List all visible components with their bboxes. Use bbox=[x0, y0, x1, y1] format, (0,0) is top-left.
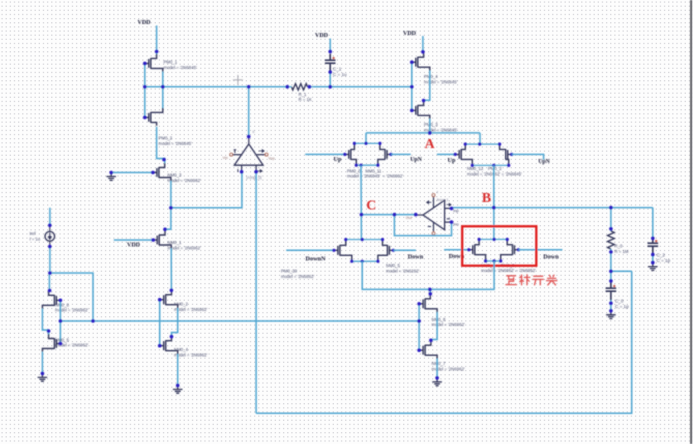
resistor R_0 bbox=[608, 231, 615, 249]
node A bbox=[425, 136, 435, 151]
switch pair Down-left bottom rail bbox=[352, 260, 378, 262]
wire chain top link bbox=[429, 289, 431, 294]
capacitor C_1 bbox=[325, 54, 347, 77]
label R_0 bbox=[615, 244, 629, 254]
svg-text:model = '2N6962': model = '2N6962' bbox=[168, 178, 201, 183]
wire DownN gate lead bbox=[286, 249, 334, 251]
switch pair Down-left right transistor bbox=[378, 240, 394, 262]
current source Iref bbox=[45, 225, 55, 246]
svg-text:|Amp_0|: |Amp_0| bbox=[246, 175, 261, 180]
svg-text:VDD: VDD bbox=[138, 20, 152, 26]
op-amp U2 bbox=[406, 190, 459, 235]
label NM0_5b bbox=[55, 337, 88, 347]
wire node B column bbox=[493, 165, 495, 239]
wire R1 left pin bbox=[287, 86, 292, 88]
capacitor C_2 bbox=[648, 237, 671, 263]
wire PM0_2 to NM0_3 bbox=[157, 127, 165, 163]
svg-text:A: A bbox=[425, 136, 435, 151]
switch pair Up-right rail junctions bbox=[454, 143, 514, 167]
svg-text:VDD: VDD bbox=[315, 33, 329, 39]
wire NM0_2 NM0_4 gate tie bbox=[159, 300, 161, 346]
transistor NM0_7 bbox=[419, 341, 437, 359]
wire bottom feedback rail bbox=[256, 271, 632, 413]
svg-text:C_1: C_1 bbox=[333, 66, 342, 71]
wire UpN gate lead bbox=[391, 153, 411, 155]
svg-text:C_2: C_2 bbox=[657, 253, 666, 258]
transistor PM0_1 bbox=[145, 54, 163, 72]
power label VDD top-left bbox=[138, 20, 152, 26]
wire Down3 gate lead bbox=[519, 249, 563, 251]
switch pair Up-left labels bbox=[347, 168, 403, 178]
svg-text:NM0_6: NM0_6 bbox=[55, 302, 69, 307]
wire R1 right pin bbox=[308, 86, 314, 88]
svg-text:NM0_3: NM0_3 bbox=[168, 173, 182, 178]
power label VDD mid-left bbox=[127, 243, 141, 249]
svg-text:model = '2N6845' = '2N6962': model = '2N6845' = '2N6962' bbox=[347, 174, 403, 179]
wire Down2 gate lead bbox=[444, 249, 469, 251]
transistor NM0_8 bbox=[419, 294, 437, 312]
junction dots group 3 bbox=[41, 224, 180, 388]
net label Down 3 bbox=[543, 253, 559, 260]
switch pair Down-right left transistor bbox=[469, 239, 486, 261]
wire NM0_1 source down bbox=[170, 248, 172, 290]
wire VDD to C_1 bbox=[329, 39, 331, 53]
label NM0_1 bbox=[168, 240, 201, 250]
wire PM0_4 PM0_3 gate tie bbox=[411, 62, 413, 110]
wire bias line right segment bbox=[313, 86, 412, 88]
switch pair Down-left left transistor bbox=[334, 240, 352, 262]
svg-text:NM0_4: NM0_4 bbox=[174, 347, 188, 352]
wire down-jog to NM0_1 drain bbox=[165, 208, 171, 231]
svg-text:Up: Up bbox=[334, 156, 342, 163]
net label UpN bbox=[410, 157, 422, 163]
transistor PM0_4 bbox=[412, 53, 430, 71]
wire NM0_6 to NM0_5b bbox=[42, 309, 48, 335]
wire NM0_3 source down bbox=[170, 181, 172, 208]
svg-text:PM0_2: PM0_2 bbox=[159, 136, 173, 141]
svg-text:NM0_12 PM0_2: NM0_12 PM0_2 bbox=[467, 166, 502, 171]
net label UpN right bbox=[538, 159, 550, 165]
wire PM0_1 gate tie bbox=[144, 63, 146, 117]
net label Down 2 bbox=[449, 253, 465, 260]
wire NM0_7 to ground bbox=[436, 359, 438, 378]
wire VDD to PM0_1 bbox=[156, 26, 158, 55]
ground mid column bbox=[173, 385, 183, 393]
label PM0_30 bbox=[281, 269, 314, 279]
switch pair Down-right rail junctions bbox=[467, 238, 520, 263]
svg-text:Down: Down bbox=[408, 253, 424, 260]
svg-text:model = '2N6262': model = '2N6262' bbox=[386, 269, 419, 274]
net label Down 1 bbox=[408, 253, 424, 260]
svg-text:model = '2N6962': model = '2N6962' bbox=[174, 352, 207, 357]
svg-text:Down: Down bbox=[543, 253, 559, 260]
svg-text:NM0_5: NM0_5 bbox=[55, 337, 69, 342]
wire node C column bbox=[360, 165, 362, 239]
label NM0_6 bbox=[55, 302, 88, 312]
label NM0_8 bbox=[432, 317, 465, 327]
switch pair Up-left right transistor bbox=[378, 143, 391, 165]
svg-text:Vin: Vin bbox=[223, 156, 228, 160]
transistor PM0_2 bbox=[145, 108, 163, 126]
svg-text:R = 1K: R = 1K bbox=[299, 97, 312, 102]
transistor NM0_6 bbox=[42, 291, 60, 309]
wire NM0_6 NM0_5b gate tie bbox=[59, 300, 61, 343]
wire op-amp U1 plus pin down to bottom rail bbox=[255, 172, 257, 413]
wire node C rail to op-amp U2 bbox=[361, 214, 416, 216]
svg-text:NM0_5: NM0_5 bbox=[386, 263, 400, 268]
label PM0_1 bbox=[164, 60, 197, 70]
wire PM0_3 drain to node A bbox=[429, 119, 431, 133]
junction dots group 1 bbox=[109, 50, 431, 210]
svg-text:NM0_1: NM0_1 bbox=[168, 240, 182, 245]
transistor NM0_2 bbox=[160, 290, 178, 308]
svg-text:model = '2N6962': model = '2N6962' bbox=[168, 245, 201, 250]
wire bias to op-amp U1 top bbox=[248, 87, 250, 137]
wire Iref to NM0_6 bbox=[48, 273, 50, 292]
svg-text:C_0: C_0 bbox=[615, 299, 624, 304]
power label VDD mid-top bbox=[315, 33, 329, 39]
svg-text:NM0_2: NM0_2 bbox=[174, 302, 188, 307]
wire Iref branch to bias rail bbox=[50, 273, 93, 321]
switch pair Down-right labels bbox=[481, 263, 536, 273]
transistor NM0_3 bbox=[153, 163, 171, 181]
svg-text:VDD: VDD bbox=[127, 243, 141, 249]
svg-text:Iref: Iref bbox=[30, 231, 37, 236]
wire node B to C_2 bbox=[652, 208, 654, 239]
wire UpN2 gate lead bbox=[512, 154, 544, 159]
net label Up right bbox=[448, 157, 456, 164]
svg-text:I = 1u: I = 1u bbox=[30, 237, 41, 242]
wire op-amp U2 feedback bbox=[394, 215, 451, 236]
svg-text:C = 1u: C = 1u bbox=[333, 72, 347, 77]
wire bias rail to gates bbox=[418, 304, 420, 350]
svg-text:model = '2N6845': model = '2N6845' bbox=[164, 65, 197, 70]
wire Iref top lead bbox=[49, 208, 51, 226]
svg-text:B: B bbox=[482, 190, 491, 205]
transistor NM0_1 bbox=[153, 231, 171, 249]
svg-text:R = 1M: R = 1M bbox=[615, 249, 629, 254]
svg-text:R_0: R_0 bbox=[615, 244, 623, 249]
switch pair Up-right bottom rail bbox=[472, 164, 508, 166]
wire PM0_1 drain down bbox=[162, 72, 164, 109]
svg-text:Up: Up bbox=[448, 157, 456, 164]
annotation complementary switch text bbox=[506, 275, 557, 285]
svg-text:PM0_30: PM0_30 bbox=[281, 269, 298, 274]
transistor NM0_5b bbox=[42, 334, 60, 352]
svg-text:C = 1p: C = 1p bbox=[615, 304, 629, 309]
switch pair Down-left rail junctions bbox=[332, 238, 395, 263]
svg-text:E: E bbox=[253, 130, 256, 134]
label R_1 bbox=[299, 92, 312, 102]
wire C_1 to bias line bbox=[329, 72, 331, 87]
switch pair Up-left top rail bbox=[354, 142, 380, 144]
wire feedback tap bbox=[611, 270, 632, 272]
svg-text:ε: ε bbox=[437, 190, 439, 194]
svg-text:PM0_3: PM0_3 bbox=[424, 122, 438, 127]
switch pair Down-right bottom rail bbox=[486, 260, 501, 262]
switch pair Up-left rail junctions bbox=[343, 142, 392, 167]
ground C_0 bbox=[606, 311, 616, 319]
svg-text:Out: Out bbox=[406, 216, 413, 220]
label NM0_5 bbox=[386, 263, 419, 273]
svg-text:UpN: UpN bbox=[538, 159, 550, 165]
wire node A left drop bbox=[365, 133, 367, 144]
power label VDD top-right bbox=[403, 31, 417, 37]
wire ground to NM0_3 gate bbox=[111, 172, 153, 174]
label PM0_4 bbox=[424, 74, 457, 84]
svg-text:Inp: Inp bbox=[453, 209, 458, 213]
wire C_2 to ground bbox=[652, 255, 654, 263]
svg-text:model = '2N6845': model = '2N6845' bbox=[424, 79, 457, 84]
svg-text:R_1: R_1 bbox=[299, 92, 307, 97]
svg-text:NM0_7: NM0_7 bbox=[432, 361, 446, 366]
wire PM0_4 to PM0_3 bbox=[424, 71, 430, 102]
resistor R_1 bbox=[292, 84, 308, 90]
wire mirror bias rail bbox=[60, 320, 419, 322]
label NM0_2 bbox=[174, 302, 207, 312]
wire node A right drop bbox=[479, 133, 481, 144]
annotation red box bbox=[462, 226, 536, 265]
label PM0_3 bbox=[424, 122, 457, 132]
ground C_2 bbox=[648, 263, 658, 271]
svg-text:C = 1p: C = 1p bbox=[657, 258, 671, 263]
ground bottom chain bbox=[432, 378, 442, 386]
net label Up bbox=[334, 156, 342, 163]
wire C_0 to ground bbox=[610, 300, 612, 311]
svg-text:PM0_1: PM0_1 bbox=[164, 60, 178, 65]
op-amp U1 bbox=[223, 130, 275, 180]
svg-text:model = '2N6862': model = '2N6862' bbox=[281, 274, 314, 279]
svg-text:UpN: UpN bbox=[410, 157, 422, 163]
ground for NM0_3 gate bbox=[106, 173, 116, 181]
window edge right bbox=[690, 0, 692, 444]
wire VDD label to NM0_1 gate bbox=[114, 239, 153, 241]
wire node B rail bbox=[452, 207, 653, 209]
junction dots group 2 bbox=[360, 206, 655, 380]
wire NM0_8 to NM0_7 bbox=[431, 312, 437, 341]
svg-text:model = '2N6845': model = '2N6845' bbox=[159, 141, 192, 146]
switch pair Down-left top rail bbox=[346, 239, 383, 241]
label NM0_4 bbox=[174, 347, 207, 357]
ground left mirror bbox=[38, 373, 48, 381]
svg-text:Amp_1: Amp_1 bbox=[437, 198, 449, 202]
transistor PM0_3 bbox=[412, 101, 430, 119]
switch pair Up-right right transistor bbox=[500, 144, 512, 165]
transistor NM0_4 bbox=[160, 336, 178, 354]
svg-text:PM0_4: PM0_4 bbox=[424, 74, 438, 79]
wire VDD to PM0_4 bbox=[422, 36, 424, 53]
svg-text:C: C bbox=[366, 198, 376, 213]
svg-text:DownN: DownN bbox=[306, 256, 326, 263]
switch pair Up-left bottom rail bbox=[356, 164, 378, 166]
cursor crosshair bbox=[233, 75, 243, 85]
switch pair Up-right top rail bbox=[465, 143, 499, 145]
label Iref bbox=[30, 231, 41, 241]
svg-text:Vop: Vop bbox=[268, 156, 275, 160]
svg-text:Inn: Inn bbox=[453, 223, 458, 227]
wire node A rail bbox=[366, 132, 480, 134]
wire NM0_5b to ground bbox=[41, 352, 43, 374]
switch pair Up-right labels bbox=[467, 166, 522, 176]
wire Up2 gate lead bbox=[437, 153, 455, 155]
wire Up gate lead bbox=[305, 153, 345, 155]
switch pair Down-right top rail bbox=[479, 238, 507, 240]
wire Down1 gate lead bbox=[393, 249, 416, 251]
wire node B to R_0 bbox=[610, 208, 612, 231]
net label DownN bbox=[306, 256, 326, 263]
wire node C to chain bbox=[362, 261, 430, 289]
switch pair Up-left left transistor bbox=[345, 143, 357, 165]
switch pair Down-right right transistor bbox=[501, 239, 519, 261]
capacitor C_0 bbox=[606, 282, 630, 309]
wire Iref bottom lead bbox=[49, 246, 51, 273]
wire bias line left segment bbox=[145, 86, 287, 88]
wire node B to chain bbox=[430, 261, 494, 289]
svg-text:model = '2N6862' = '2N6952': model = '2N6862' = '2N6952' bbox=[481, 268, 536, 273]
svg-text:NM0_8: NM0_8 bbox=[432, 317, 446, 322]
svg-text:PM0_0 NM0_11: PM0_0 NM0_11 bbox=[347, 168, 382, 173]
switch pair Up-right left transistor bbox=[455, 144, 472, 165]
wire NM0_2 to NM0_4 bbox=[172, 308, 178, 336]
node B bbox=[482, 190, 491, 205]
wire NM0_4 source to ground bbox=[177, 354, 179, 385]
wire node to op-amp U1 inverting input bbox=[171, 172, 242, 208]
switch pair Down-left labels bbox=[0, 0, 1, 1]
label PM0_2 bbox=[159, 136, 192, 146]
svg-text:VDD: VDD bbox=[403, 31, 417, 37]
label NM0_7 bbox=[432, 361, 465, 371]
wire R_0 to C_0 bbox=[610, 249, 612, 282]
node C bbox=[366, 198, 376, 213]
label NM0_3 bbox=[168, 173, 201, 183]
svg-text:model = '2N6962': model = '2N6962' bbox=[174, 307, 207, 312]
